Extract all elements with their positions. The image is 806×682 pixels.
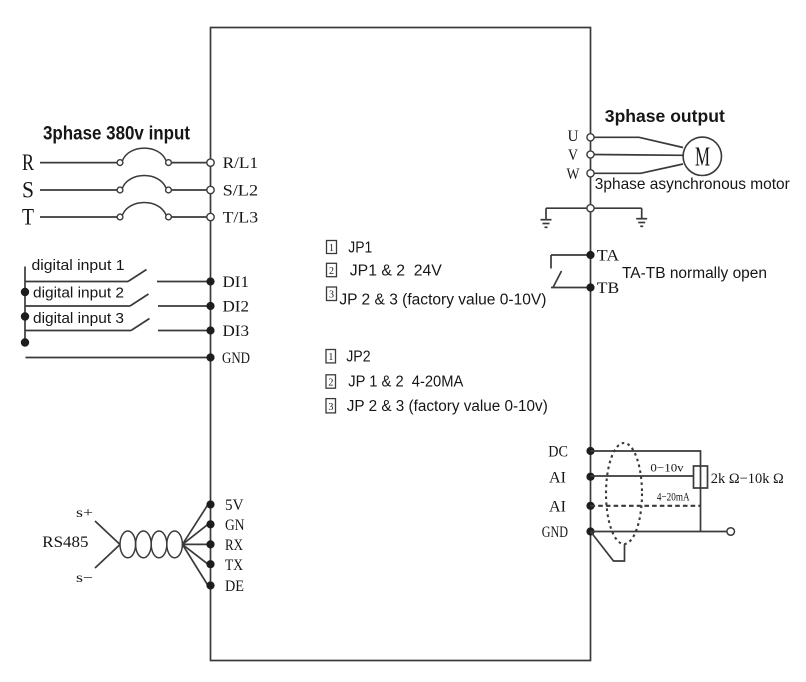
wire s+ lead — [95, 521, 120, 545]
terminal U — [587, 134, 594, 141]
switch SW2 blade — [130, 294, 149, 306]
wire coil to GN — [182, 524, 208, 544]
svg-text:2: 2 — [329, 266, 334, 277]
wire AI 4-20mA (dashed) — [591, 505, 701, 507]
wire TB — [551, 287, 587, 289]
potentiometer RP1 body — [694, 466, 708, 488]
wire W to motor — [594, 164, 683, 173]
switch SW3 blade — [131, 319, 150, 331]
wire S lead — [40, 189, 117, 191]
RS485 cable coil L1 — [120, 531, 136, 558]
wire V to motor — [594, 154, 683, 157]
svg-text:digital input 1: digital input 1 — [32, 257, 125, 274]
terminal DI1 — [206, 277, 214, 285]
jumper JP2 pin 2 — [326, 375, 336, 388]
svg-text:GND: GND — [542, 524, 568, 541]
wire coil to TX — [182, 544, 208, 564]
cable shield ellipse (dashed) — [606, 443, 642, 544]
terminal DI2 — [206, 302, 214, 310]
terminal TB — [586, 283, 594, 291]
terminal TA — [586, 251, 594, 259]
svg-text:s+: s+ — [76, 506, 93, 521]
wire R to terminal — [172, 162, 207, 164]
svg-text:DI1: DI1 — [223, 274, 250, 291]
wire R lead — [40, 162, 117, 164]
svg-text:U: U — [568, 128, 579, 145]
terminal AI (voltage) — [586, 473, 594, 481]
svg-text:T: T — [22, 204, 34, 229]
svg-text:3phase 380v input: 3phase 380v input — [43, 123, 191, 144]
terminal DC — [586, 447, 594, 455]
jumper JP1 pin 2 — [327, 263, 337, 276]
svg-text:0−10v: 0−10v — [650, 460, 683, 474]
svg-text:3phase output: 3phase output — [605, 106, 725, 126]
svg-text:digital input 2: digital input 2 — [33, 285, 124, 302]
terminal RX — [206, 540, 214, 548]
earth rail wire — [546, 207, 642, 209]
breaker pole S — [117, 187, 123, 193]
wire T lead — [40, 216, 117, 218]
jumper JP2 pin 1 — [326, 350, 336, 363]
svg-text:JP 1 & 2 4-20MA: JP 1 & 2 4-20MA — [348, 374, 464, 391]
svg-text:M: M — [695, 142, 710, 172]
svg-text:4−20mA: 4−20mA — [657, 490, 690, 504]
terminal GN — [206, 520, 214, 528]
terminal S/L2 — [207, 186, 214, 193]
svg-text:RX: RX — [225, 537, 243, 554]
switch SW1 blade — [128, 270, 147, 282]
breaker pole R (contact circles + arc) — [117, 160, 123, 166]
switch SW2 wire left — [25, 305, 130, 307]
ground symbol left — [545, 208, 547, 219]
terminal AI (current) — [586, 502, 594, 510]
svg-text:DI3: DI3 — [223, 323, 250, 340]
svg-text:s−: s− — [76, 571, 93, 586]
shield pigtail wire to GND — [591, 532, 625, 562]
terminal 5V — [206, 500, 214, 508]
svg-text:GN: GN — [225, 517, 245, 534]
svg-text:JP2: JP2 — [346, 349, 370, 366]
terminal TX — [206, 560, 214, 568]
switch SW3 wire right — [158, 330, 207, 332]
switch SW1 wire right — [157, 281, 207, 283]
svg-text:2k Ω−10k Ω: 2k Ω−10k Ω — [711, 471, 784, 487]
svg-text:DI2: DI2 — [223, 299, 250, 316]
svg-text:V: V — [568, 147, 578, 164]
svg-text:R/L1: R/L1 — [223, 155, 259, 172]
relay contact K1 blade — [553, 271, 562, 288]
svg-text:W: W — [567, 166, 581, 183]
terminal DE — [206, 581, 214, 589]
terminal external (open circle) — [727, 528, 735, 536]
svg-text:DE: DE — [225, 578, 244, 595]
svg-text:3: 3 — [328, 402, 333, 413]
wire S to terminal — [172, 189, 207, 191]
svg-text:TA: TA — [597, 248, 620, 265]
svg-text:TX: TX — [225, 557, 243, 574]
wire DC to potentiometer — [591, 451, 701, 532]
digital input common bus wire — [24, 267, 26, 343]
svg-text:JP1 & 2 24V: JP1 & 2 24V — [350, 263, 443, 280]
svg-text:JP 2 & 3 (factory value 0-10v): JP 2 & 3 (factory value 0-10v) — [347, 398, 548, 415]
motor M1 circle — [683, 137, 721, 175]
svg-text:JP 2 & 3 (factory value 0-10V): JP 2 & 3 (factory value 0-10V) — [339, 291, 546, 308]
wire coil to RX — [182, 543, 208, 545]
jumper JP1 pin 1 — [327, 241, 337, 254]
wire T to terminal — [172, 216, 207, 218]
svg-text:1: 1 — [328, 352, 333, 363]
svg-text:RS485: RS485 — [42, 534, 88, 551]
ground symbol right — [641, 208, 643, 218]
node: earth rail junction — [587, 205, 594, 212]
switch SW2 wire right — [158, 305, 207, 307]
svg-text:S: S — [22, 177, 34, 202]
wire U to motor — [594, 137, 683, 147]
wire coil to DE — [182, 544, 208, 585]
terminal T/L3 — [207, 213, 214, 220]
jumper JP1 pin 3 — [327, 287, 337, 301]
svg-text:R: R — [22, 150, 35, 175]
svg-text:1: 1 — [329, 243, 334, 254]
terminal GND (analog) — [586, 527, 594, 535]
inverter enclosure box U1 — [211, 28, 591, 661]
relay contact K1 fixed stub — [550, 255, 552, 269]
jumper JP2 pin 3 — [326, 399, 336, 413]
svg-text:T/L3: T/L3 — [223, 210, 259, 227]
svg-text:AI: AI — [549, 469, 566, 486]
wire s- lead — [95, 545, 120, 569]
wire coil to 5V — [182, 505, 208, 545]
junction dot bus bottom — [21, 338, 29, 346]
junction dot on bus (row 2) — [21, 288, 29, 296]
svg-text:S/L2: S/L2 — [223, 183, 259, 200]
switch SW1 wire left — [25, 281, 128, 283]
terminal W — [587, 170, 594, 177]
wire GND analog — [591, 531, 727, 533]
svg-text:2: 2 — [328, 378, 333, 389]
svg-text:digital input 3: digital input 3 — [33, 310, 124, 327]
svg-text:GND: GND — [222, 350, 250, 367]
wire TA — [551, 254, 587, 256]
wire GND (digital) — [26, 357, 207, 359]
svg-text:JP1: JP1 — [348, 239, 372, 256]
svg-text:5V: 5V — [225, 497, 244, 514]
junction dot on bus (row 3) — [21, 312, 29, 320]
svg-text:TA-TB normally open: TA-TB normally open — [622, 265, 767, 282]
terminal DI3 — [206, 326, 214, 334]
terminal GND (digital) — [206, 353, 214, 361]
terminal V — [587, 151, 594, 158]
breaker pole T — [117, 214, 123, 220]
svg-text:3phase asynchronous motor: 3phase asynchronous motor — [595, 176, 791, 193]
svg-text:3: 3 — [329, 290, 334, 301]
svg-text:AI: AI — [549, 498, 566, 515]
svg-text:TB: TB — [597, 280, 619, 297]
switch SW3 wire left — [25, 330, 131, 332]
wire AI 0-10v — [591, 475, 694, 477]
svg-text:DC: DC — [548, 444, 568, 461]
terminal R/L1 — [207, 159, 214, 166]
